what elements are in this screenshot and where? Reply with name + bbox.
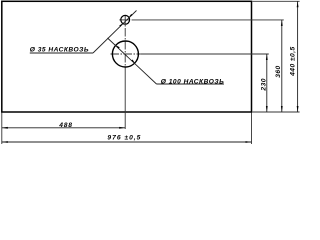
leader shelf for D100 callout (157, 83, 225, 85)
arrowhead on D35 lower-left edge (119, 23, 122, 26)
hole circle D35 (121, 15, 130, 24)
extension line top right (252, 0, 299, 2)
diameter dimension line for D100 (108, 38, 157, 84)
horizontal centerline of small hole (119, 19, 129, 21)
svg-text:230: 230 (261, 78, 268, 92)
dimension line 976 (2, 141, 252, 143)
dimension line 440 (297, 1, 299, 112)
svg-text:488: 488 (58, 122, 73, 129)
svg-text:976 ±0,5: 976 ±0,5 (107, 134, 141, 141)
hole circle D100 (112, 41, 138, 67)
svg-text:Ø 35 НАСКВОЗЬ: Ø 35 НАСКВОЗЬ (30, 46, 89, 53)
svg-text:360: 360 (275, 65, 282, 78)
panel outline (2, 1, 252, 112)
svg-text:440 ±0,5: 440 ±0,5 (290, 46, 297, 77)
dimension line 488 (2, 127, 125, 129)
arrowhead on D100 lower-right edge (131, 60, 135, 63)
svg-text:Ø 100 НАСКВОЗЬ: Ø 100 НАСКВОЗЬ (161, 78, 224, 85)
dimension line 230 (266, 54, 268, 112)
extension line from large hole to 230 dimension (140, 53, 269, 55)
arrowhead on D35 upper-right edge (129, 14, 133, 17)
arrowheads 230 (266, 54, 268, 60)
horizontal centerline of large hole (111, 53, 141, 55)
arrowheads 440 (297, 1, 299, 7)
dimension line 360 (281, 20, 283, 112)
extension line bottom right (252, 111, 299, 113)
leader shelf for D35 callout (30, 52, 93, 54)
arrowheads 488 (2, 127, 8, 129)
extension line bottom right edge (251, 113, 253, 145)
extension line from hole center down to 488 dimension (124, 71, 126, 130)
vertical centerline through holes (124, 15, 126, 71)
arrowheads 360 (281, 20, 283, 26)
diameter dimension line for D35 (93, 11, 137, 54)
arrowheads 976 (2, 141, 8, 143)
extension line bottom left (1, 113, 3, 145)
arrowhead on D100 upper-left edge (116, 45, 120, 48)
extension line from small hole to 360 dimension (132, 19, 284, 21)
